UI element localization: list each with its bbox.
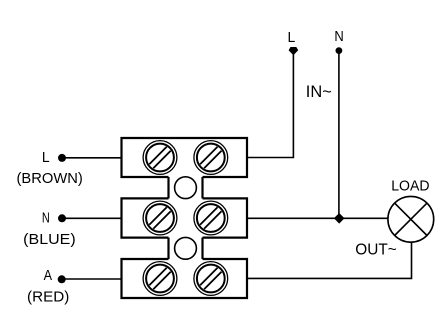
svg-text:(RED): (RED): [27, 289, 69, 306]
svg-text:OUT~: OUT~: [355, 242, 397, 259]
svg-text:L: L: [42, 150, 50, 166]
svg-text:LOAD: LOAD: [391, 179, 429, 195]
svg-text:L: L: [288, 29, 296, 46]
svg-text:N: N: [334, 28, 343, 45]
svg-text:A: A: [44, 268, 53, 284]
svg-text:(BLUE): (BLUE): [23, 231, 75, 248]
svg-text:N: N: [42, 211, 50, 227]
svg-text:IN~: IN~: [306, 82, 332, 101]
svg-text:(BROWN): (BROWN): [17, 170, 83, 187]
